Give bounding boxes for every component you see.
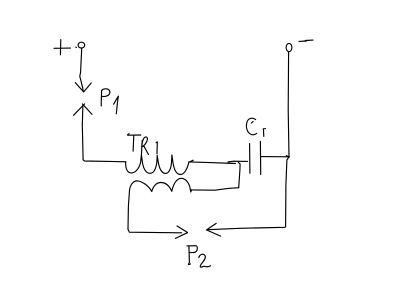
capacitor Cr right plate bbox=[259, 142, 261, 175]
spark gap P2 right electrode (left arrow) bbox=[206, 223, 220, 236]
wire from Cr right plate to right rail bbox=[261, 156, 289, 158]
wire from plus terminal down to P1 top electrode bbox=[80, 48, 83, 87]
right rail wire from capacitor node down to bottom corner bbox=[286, 157, 289, 227]
wire overlap stroke into Cr left plate bbox=[228, 160, 248, 163]
capacitor Cr left plate bbox=[249, 144, 251, 174]
corner and wire right to TR1 primary bbox=[83, 160, 126, 162]
bottom left corner and wire right to P2 left electrode bbox=[128, 229, 182, 233]
label P2 bbox=[187, 246, 211, 268]
plus terminal circle bbox=[78, 42, 85, 48]
transformer TR1 secondary coil bbox=[130, 178, 191, 191]
spark gap P1 top electrode (down arrow) bbox=[75, 83, 91, 92]
minus sign (- supply marking) bbox=[299, 40, 313, 41]
label TR1 bbox=[127, 134, 157, 155]
primary right end tick bbox=[189, 160, 193, 162]
plus sign (+ supply marking) bbox=[54, 40, 71, 55]
return riser wire up to capacitor node junction bbox=[238, 162, 240, 188]
right rail wire from minus terminal down to capacitor node bbox=[287, 52, 290, 157]
label Cr bbox=[246, 118, 265, 136]
secondary right end tick bbox=[190, 189, 191, 192]
junction tick at right rail bbox=[286, 156, 289, 157]
wire from primary coil to capacitor Cr left plate bbox=[189, 162, 235, 164]
stray dot bbox=[75, 46, 78, 48]
wire from secondary coil right end to return riser bbox=[191, 188, 239, 191]
minus terminal circle bbox=[286, 43, 292, 51]
wire from P1 bottom electrode down to corner bbox=[81, 125, 84, 160]
wire from TR1 secondary left lead down to bottom left corner bbox=[128, 191, 130, 230]
spark gap P1 bottom electrode (up arrow) bbox=[74, 104, 93, 125]
bottom right corner and wire left to P2 right electrode bbox=[208, 227, 286, 230]
spark gap P2 left electrode (right arrow) bbox=[175, 226, 187, 238]
label P1 bbox=[101, 89, 118, 114]
transformer TR1 primary coil bbox=[126, 155, 189, 175]
